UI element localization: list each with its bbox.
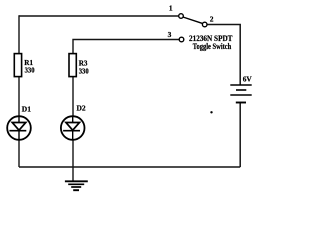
svg-text:330: 330 <box>79 66 89 75</box>
ground <box>65 181 88 190</box>
svg-text:1: 1 <box>169 4 173 13</box>
svg-text:2: 2 <box>210 15 214 24</box>
svg-text:D1: D1 <box>22 105 31 114</box>
LED D1 <box>7 105 31 140</box>
wire left vertical branch (R1/D1 net) <box>18 15 20 167</box>
LED D2 <box>61 104 86 140</box>
wire switch throw 3 to R3 branch <box>73 40 179 55</box>
battery plate long <box>230 94 251 96</box>
switch S1 pole terminal 1 <box>179 14 184 19</box>
wire bottom return <box>19 166 240 168</box>
svg-text:3: 3 <box>168 30 172 39</box>
wire switch throw 2 to battery positive <box>207 25 240 86</box>
svg-text:330: 330 <box>25 66 35 75</box>
switch S1 value label <box>189 34 233 51</box>
wire D2 to ground through bottom wire <box>72 139 74 181</box>
svg-text:D2: D2 <box>77 104 86 113</box>
battery plate short bottom <box>236 102 246 104</box>
svg-text:Toggle Switch: Toggle Switch <box>193 42 232 51</box>
battery plate short <box>236 89 246 91</box>
wire battery negative to bottom <box>239 103 241 167</box>
switch S1 throw terminal 2 <box>202 22 207 27</box>
svg-text:6V: 6V <box>243 74 253 83</box>
wire R3 to D2 <box>72 76 74 117</box>
battery V1 <box>230 74 252 102</box>
battery plate long top <box>230 84 251 86</box>
stray junction dot <box>210 111 212 113</box>
resistor R3 <box>69 54 89 77</box>
switch S1 lever (1 to 2) <box>183 17 203 24</box>
resistor R1 <box>14 54 34 77</box>
wire top from left branch to switch pole 1 <box>19 15 178 17</box>
switch S1 throw terminal 3 <box>179 37 184 42</box>
